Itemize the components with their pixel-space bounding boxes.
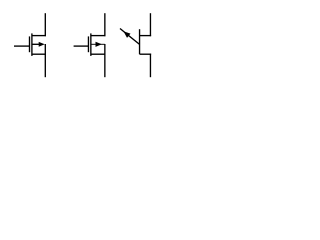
wire: Q1 source rail <box>44 44 46 77</box>
wire: Q3 base1 lead <box>149 54 151 78</box>
wire: Q3 base2 lead <box>149 13 151 36</box>
transistor Q1 (n-channel MOSFET) <box>14 13 46 77</box>
wire: Q2 drain stub <box>91 35 106 37</box>
wire: Q3 emitter diagonal lead <box>120 29 140 45</box>
wire: Q3 base1 stub <box>140 53 152 55</box>
Q2 bulk arrowhead <box>96 42 102 47</box>
wire: Q1 drain stub <box>32 35 46 37</box>
Q2 gate electrode bar <box>87 36 89 52</box>
Q3 channel bar <box>139 29 141 54</box>
Q1 gate electrode bar <box>29 36 31 52</box>
transistor Q2 (p-channel MOSFET) <box>74 13 106 77</box>
wire: Q2 source stub <box>91 53 106 55</box>
wire: Q2 source rail <box>104 44 106 77</box>
wire: Q1 source stub <box>32 53 46 55</box>
wire: Q1 bulk stub <box>32 43 40 45</box>
wire: Q3 base2 stub <box>140 35 152 37</box>
transistor Q3 (unijunction transistor) <box>120 13 151 77</box>
wire: Q1 drain lead <box>44 13 46 36</box>
Q1 channel bar <box>31 33 33 56</box>
wire: Q2 drain lead <box>104 13 106 36</box>
wire: Q2 gate lead <box>74 45 89 47</box>
wire: Q1 gate lead <box>14 45 30 47</box>
Q2 channel bar <box>90 33 92 56</box>
Q1 bulk arrowhead <box>39 42 45 47</box>
Q3 emitter arrowhead <box>124 31 131 37</box>
wire: Q2 bulk stub <box>91 43 105 45</box>
